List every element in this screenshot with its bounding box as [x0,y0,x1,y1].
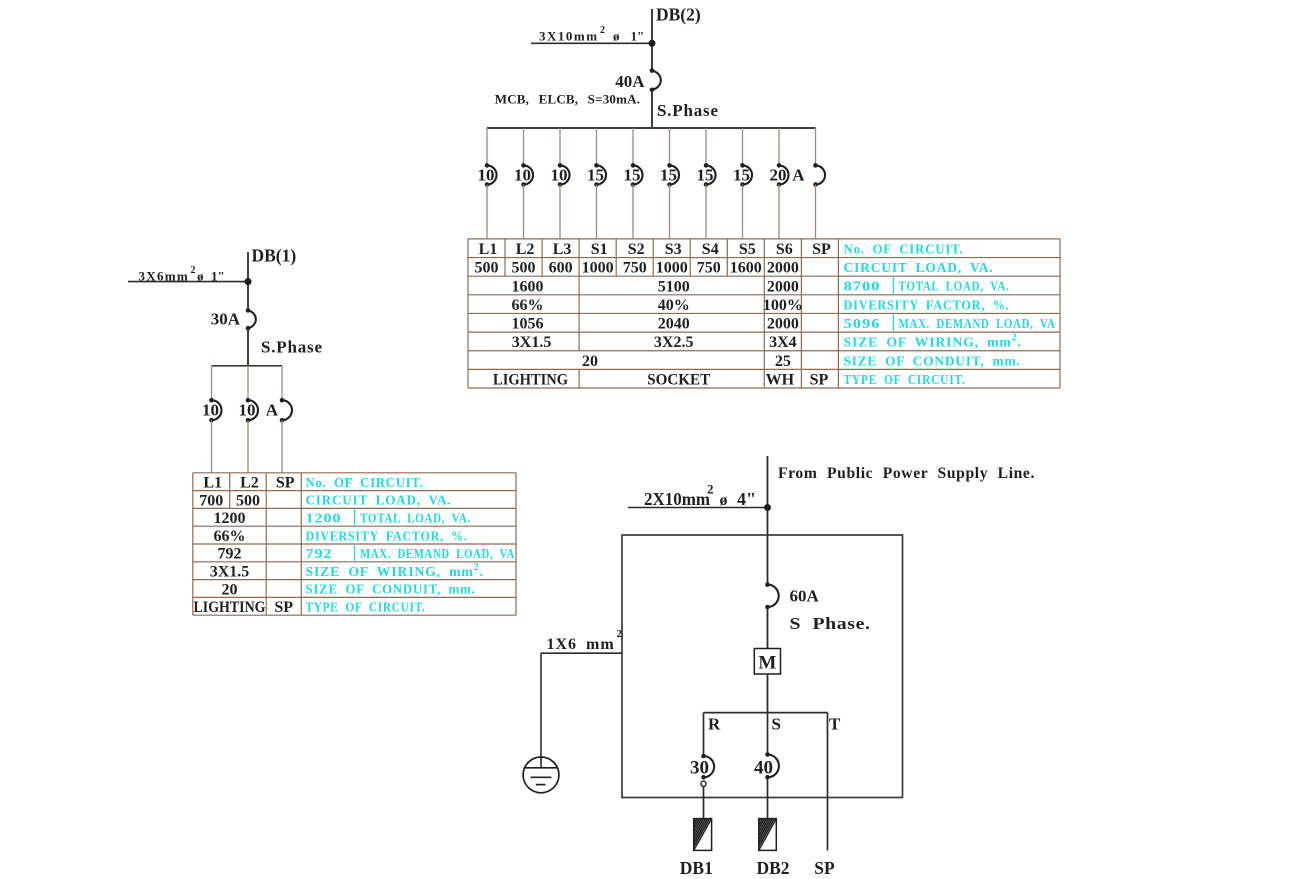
svg-text:3X6mm: 3X6mm [139,269,190,284]
wire breaker L3 to load table [559,185,561,239]
svg-text:No. OF CIRCUIT.: No. OF CIRCUIT. [306,475,424,490]
svg-text:M: M [758,653,776,674]
wire T phase spare SP [827,713,829,851]
svg-text:A: A [792,166,805,185]
svg-text:S5: S5 [739,241,756,258]
svg-text:ø: ø [613,29,620,44]
svg-text:20: 20 [222,581,238,598]
svg-text:15: 15 [697,166,714,185]
svg-text:TYPE OF CIRCUIT.: TYPE OF CIRCUIT. [306,600,426,615]
svg-text:3X2.5: 3X2.5 [654,334,694,351]
ground electrode symbol (earth) [523,757,559,793]
svg-text:20: 20 [582,353,598,370]
svg-text:40A: 40A [615,72,645,91]
svg-text:TYPE OF CIRCUIT.: TYPE OF CIRCUIT. [844,372,966,387]
table row circuit loads DB(1) [199,492,260,509]
svg-text:CIRCUIT LOAD, VA.: CIRCUIT LOAD, VA. [306,493,452,508]
sub-cell divider total load DB(1) [354,509,356,525]
table row conduit size DB(2) [582,353,791,370]
svg-text:SP: SP [814,858,835,878]
svg-text:792: 792 [218,546,242,563]
svg-text:3X1.5: 3X1.5 [210,564,250,581]
svg-text:SIZE OF CONDUIT, mm.: SIZE OF CONDUIT, mm. [844,353,1021,368]
svg-text:100%: 100% [763,297,803,314]
breaker branch circuit L1 DB(1) [209,398,221,423]
svg-text:S.Phase: S.Phase [261,338,323,357]
wire breaker S4 to load table [705,185,707,239]
table row diversity factor DB(2) [512,297,803,314]
svg-text:LIGHTING: LIGHTING [194,599,266,616]
table grid DB(2) [468,239,1060,388]
svg-text:MCB, ELCB, S=30mA.: MCB, ELCB, S=30mA. [495,92,640,107]
wire 60A breaker to meter [767,607,769,649]
table header row circuit names DB(2) [479,241,831,258]
svg-text:TOTAL LOAD, VA.: TOTAL LOAD, VA. [899,279,1010,294]
svg-text:2: 2 [617,628,623,640]
wire breaker L1 to load table DB(1) [211,420,213,473]
svg-text:1200: 1200 [306,511,342,526]
svg-text:CIRCUIT LOAD, VA.: CIRCUIT LOAD, VA. [844,260,994,275]
svg-text:500: 500 [236,492,260,509]
svg-text:From Public Power Supply Line.: From Public Power Supply Line. [778,465,1035,482]
wire drop to branch breaker S3 [669,128,671,165]
breaker branch circuit S5 [740,163,752,187]
breaker branch circuit SP DB(1) [280,398,292,423]
svg-text:T: T [829,715,841,734]
wire S phase drop [767,713,769,755]
feeder symbol DB2 (hatched) [759,775,777,850]
svg-text:1": 1" [211,269,225,284]
wire breaker L2 to load table [523,185,525,239]
svg-text:2000: 2000 [767,316,799,333]
svg-text:2: 2 [600,25,605,36]
wire R phase drop [703,713,705,756]
svg-text:LIGHTING: LIGHTING [493,372,569,389]
wire 40A breaker to bus DB(2) [651,90,653,128]
svg-text:SIZE OF WIRING, mm2.: SIZE OF WIRING, mm2. [306,562,484,579]
wire breaker S5 to load table [742,185,744,239]
svg-text:5100: 5100 [658,278,690,295]
svg-text:S1: S1 [591,241,608,258]
svg-text:4": 4" [737,489,756,509]
bus R-S-T phase bus [704,712,828,714]
breaker branch circuit S4 [704,163,716,187]
wire 40A breaker to DB2 feeder [767,777,769,818]
svg-text:3X1.5: 3X1.5 [512,334,552,351]
svg-text:25: 25 [775,353,791,370]
svg-text:1000: 1000 [582,260,614,277]
table row wiring size DB(2) [512,334,797,351]
svg-text:S: S [772,715,781,734]
svg-text:TOTAL LOAD, VA.: TOTAL LOAD, VA. [360,511,471,526]
svg-text:700: 700 [199,492,223,509]
wire drop to branch breaker L2 [523,128,525,165]
breaker branch circuit S2 [631,163,643,187]
svg-text:S4: S4 [702,241,719,258]
svg-text:10: 10 [202,401,219,420]
svg-text:2040: 2040 [658,316,690,333]
breaker CB 60A service main [765,582,779,609]
svg-text:750: 750 [697,260,721,277]
svg-text:2000: 2000 [767,260,799,277]
wire drop to branch breaker S4 [705,128,707,165]
svg-text:ø: ø [720,492,728,509]
svg-text:MAX. DEMAND LOAD, VA: MAX. DEMAND LOAD, VA [360,546,515,561]
svg-text:10: 10 [514,166,531,185]
wire breaker S6 to load table [778,185,780,239]
svg-text:5096: 5096 [844,316,881,331]
svg-text:L1: L1 [479,241,498,258]
breaker branch circuit S1 [594,163,606,187]
table row total load DB(2) [512,278,799,295]
svg-text:15: 15 [733,166,750,185]
wire cable-spec leader service [628,507,768,509]
svg-text:S6: S6 [776,241,793,258]
svg-text:10: 10 [551,166,568,185]
wire breaker L2 to load table DB(1) [247,420,249,473]
svg-text:500: 500 [475,260,499,277]
svg-text:ø: ø [197,269,204,284]
svg-text:S.Phase: S.Phase [657,101,719,120]
breaker CB 40A feeder DB2 [765,752,779,779]
wire drop to branch breaker L1 DB(1) [211,366,213,400]
svg-text:SP: SP [812,241,831,258]
svg-text:15: 15 [660,166,677,185]
svg-text:No. OF CIRCUIT.: No. OF CIRCUIT. [844,241,964,256]
wire breaker S1 to load table [596,185,598,239]
svg-text:15: 15 [624,166,641,185]
svg-text:1600: 1600 [730,260,762,277]
wire ground conductor vertical [540,653,542,768]
sub-cell divider max demand DB(2) [892,314,894,331]
svg-text:2: 2 [707,482,714,497]
table row max demand DB(2) [512,316,799,333]
table row circuit loads DB(2) [475,260,799,277]
svg-text:15: 15 [587,166,604,185]
svg-text:2: 2 [191,265,196,276]
wire 30A breaker to bus DB(1) [247,328,249,366]
svg-text:2000: 2000 [767,278,799,295]
wire breaker S2 to load table [632,185,634,239]
wire drop to branch breaker S5 [742,128,744,165]
svg-text:SIZE OF WIRING, mm2.: SIZE OF WIRING, mm2. [844,333,1022,350]
wire DB(1) incoming feeder [247,252,249,310]
bus DB(1) distribution bus [212,365,283,367]
svg-text:L2: L2 [516,241,535,258]
svg-text:3X4: 3X4 [769,334,797,351]
svg-text:DB(2): DB(2) [656,5,701,25]
svg-text:MAX. DEMAND LOAD, VA: MAX. DEMAND LOAD, VA [899,316,1056,331]
sub-cell divider max demand DB(1) [354,545,356,561]
wire drop to branch breaker L1 [486,128,488,165]
svg-text:60A: 60A [790,587,820,606]
svg-text:SP: SP [274,599,293,616]
breaker branch circuit L2 [521,163,533,187]
svg-text:600: 600 [549,260,573,277]
svg-text:SP: SP [276,475,295,492]
table row circuit types DB(2) [493,372,828,389]
svg-text:DIVERSITY FACTOR, %.: DIVERSITY FACTOR, %. [844,297,1010,312]
svg-text:1000: 1000 [656,260,688,277]
svg-text:DB1: DB1 [680,858,713,878]
wire drop to branch breaker SP DB(1) [281,366,283,400]
junction dot DB(1) feeder tap [245,278,252,285]
wire drop to branch breaker L2 DB(1) [247,366,249,400]
wire drop to branch breaker S2 [632,128,634,165]
breaker branch circuit L3 [558,163,570,187]
svg-text:1600: 1600 [512,278,544,295]
svg-text:792: 792 [306,546,333,561]
wire drop to branch breaker S6 [778,128,780,165]
wire breaker SP to load table [815,185,817,239]
wire drop to branch breaker L3 [559,128,561,165]
breaker branch circuit L1 [485,163,497,187]
svg-text:2X10mm: 2X10mm [644,489,710,509]
wire ground conductor horizontal [541,652,622,654]
svg-text:S3: S3 [665,241,682,258]
sub-cell divider total load DB(2) [892,277,894,294]
wire cable-spec leader DB(1) [128,281,248,283]
svg-text:SOCKET: SOCKET [647,372,710,389]
svg-text:10: 10 [239,401,256,420]
table header row circuit names DB(1) [203,475,294,492]
feeder symbol DB1 (hatched) [694,775,712,850]
breaker branch circuit S3 [667,163,679,187]
svg-text:R: R [708,715,721,734]
svg-text:1200: 1200 [214,510,246,527]
wire drop to branch breaker S1 [596,128,598,165]
bus DB(2) distribution bus [487,127,816,129]
svg-text:1056: 1056 [512,316,544,333]
svg-text:L1: L1 [203,475,222,492]
svg-text:500: 500 [512,260,536,277]
wire breaker S3 to load table [669,185,671,239]
svg-text:8700: 8700 [844,279,881,294]
svg-text:DB2: DB2 [757,858,790,878]
svg-text:S2: S2 [628,241,645,258]
table row circuit types DB(1) [194,599,294,616]
svg-text:S Phase.: S Phase. [790,614,871,633]
breaker branch circuit L2 DB(1) [246,398,258,423]
wire DB(2) incoming feeder [651,9,653,71]
svg-text:DIVERSITY FACTOR, %.: DIVERSITY FACTOR, %. [306,528,468,543]
svg-text:30A: 30A [211,310,241,329]
wire breaker SP to load table DB(1) [281,420,283,473]
terminal circle below 30A breaker [701,781,706,786]
svg-text:20: 20 [770,166,787,185]
breaker CB 40A main DB(2) [650,68,661,92]
svg-text:3X10mm: 3X10mm [539,29,599,44]
svg-text:A: A [266,401,279,420]
svg-text:DB(1): DB(1) [252,246,297,266]
junction dot service feeder tap [764,504,771,511]
svg-text:L3: L3 [553,241,572,258]
breaker CB 30A main DB(1) [246,308,256,330]
svg-text:66%: 66% [214,528,246,545]
breaker CB 30A feeder DB1 [701,754,714,780]
meter M (kWh meter) [754,649,780,675]
breaker branch circuit S6 [777,163,789,187]
wire breaker L1 to load table [486,185,488,239]
svg-text:40: 40 [754,758,773,779]
svg-text:66%: 66% [512,297,544,314]
svg-text:10: 10 [478,166,495,185]
svg-text:40%: 40% [658,297,690,314]
table grid DB(1) [193,473,516,615]
wire drop to branch breaker SP [815,128,817,165]
wire meter to RST bus [767,674,769,713]
svg-text:SIZE OF CONDUIT, mm.: SIZE OF CONDUIT, mm. [306,582,476,597]
wire 30A breaker to DB1 feeder [703,786,705,818]
breaker branch circuit SP [813,163,825,187]
svg-text:750: 750 [623,260,647,277]
panel enclosure box [622,535,903,798]
svg-text:1": 1" [631,29,645,44]
junction dot DB(2) feeder tap [649,40,656,47]
wire service feeder incoming [767,456,769,585]
wire cable-spec leader DB(2) [531,42,652,44]
svg-text:SP: SP [810,372,829,389]
svg-text:L2: L2 [240,475,259,492]
svg-text:30: 30 [690,758,709,779]
svg-text:WH: WH [766,372,795,389]
svg-text:1X6 mm: 1X6 mm [547,636,615,653]
